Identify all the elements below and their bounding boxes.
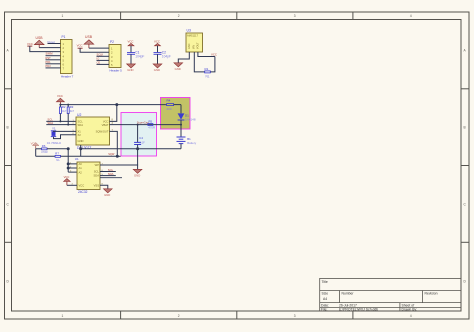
wire P1 pin5 RST bbox=[46, 56, 61, 60]
wire P2 pin4 IO bbox=[97, 56, 110, 60]
svg-text:Drawn By:: Drawn By: bbox=[402, 308, 418, 312]
net label SDA + wire bbox=[46, 121, 76, 126]
battery B1 bbox=[177, 137, 197, 149]
ground (U3) bbox=[174, 63, 183, 71]
diode D1 bbox=[178, 105, 196, 137]
wire U1 VSS to gnd bbox=[100, 185, 108, 189]
power port VCC (U1) bbox=[64, 175, 71, 185]
power port VCC (pull resistors) bbox=[31, 142, 39, 149]
wire U2 SQW/OUT down to gnd rail bbox=[110, 131, 118, 156]
IC U1 24C32 bbox=[75, 157, 100, 194]
svg-text:IO: IO bbox=[97, 56, 100, 60]
resistor R5 bbox=[148, 120, 155, 130]
wire P1 pin4 SWIM bbox=[46, 52, 61, 56]
net label VCC (U3 out) bbox=[211, 52, 217, 56]
svg-text:1N4148: 1N4148 bbox=[185, 117, 196, 121]
svg-text:R6: R6 bbox=[42, 144, 46, 148]
svg-text:Number: Number bbox=[342, 292, 355, 296]
capacitor C4 supercap bbox=[134, 124, 145, 166]
wire P1 pin3 VCC bbox=[30, 46, 61, 52]
svg-text:Header 7: Header 7 bbox=[61, 75, 74, 79]
net label SCL (U1) bbox=[100, 168, 116, 172]
svg-text:Size: Size bbox=[322, 292, 329, 296]
svg-text:USB: USB bbox=[36, 36, 44, 40]
svg-text:B: B bbox=[464, 126, 466, 130]
wire P1 pin7 PD3 bbox=[46, 64, 61, 68]
svg-text:2: 2 bbox=[178, 314, 180, 318]
power port VCC (P2) bbox=[77, 43, 83, 48]
svg-text:4: 4 bbox=[410, 14, 412, 18]
pin number 8 bbox=[112, 119, 114, 122]
resistor R7 bbox=[36, 149, 118, 162]
svg-text:3: 3 bbox=[294, 14, 296, 18]
svg-text:24C32: 24C32 bbox=[78, 190, 88, 194]
svg-text:VIN: VIN bbox=[193, 45, 196, 49]
wire P2 pin5 CE bbox=[97, 60, 110, 64]
svg-text:4: 4 bbox=[410, 314, 412, 318]
svg-text:AMS1117: AMS1117 bbox=[187, 34, 199, 38]
svg-text:VCC: VCC bbox=[77, 43, 83, 47]
resistor R2 bbox=[59, 105, 66, 122]
net label SDA (U1) bbox=[100, 172, 122, 178]
wire X1 to crystal bbox=[54, 130, 77, 133]
svg-text:GND: GND bbox=[188, 43, 191, 49]
svg-text:VCC: VCC bbox=[211, 52, 217, 56]
regulator U3 bbox=[186, 29, 203, 53]
wire P2 pin2 VCC bbox=[80, 48, 109, 52]
svg-text:GND: GND bbox=[154, 68, 160, 72]
svg-text:VCC: VCC bbox=[57, 94, 63, 98]
power port USB (P1) bbox=[34, 36, 44, 48]
svg-text:WP: WP bbox=[95, 163, 100, 167]
svg-text:R5: R5 bbox=[149, 120, 153, 124]
wire U1 WP to gnd bbox=[100, 165, 138, 169]
svg-text:File:: File: bbox=[321, 308, 327, 312]
junction rail-R2 bbox=[59, 104, 61, 106]
wire U2 VCC pin up to rail bbox=[110, 104, 118, 122]
wire P2 pin3 SCLK bbox=[97, 52, 110, 56]
svg-text:SDA: SDA bbox=[78, 123, 84, 127]
svg-text:U2: U2 bbox=[77, 113, 81, 117]
ground (WP) bbox=[133, 169, 142, 177]
svg-text:VOUT: VOUT bbox=[197, 42, 200, 49]
svg-text:SWIM: SWIM bbox=[46, 52, 53, 56]
resistor R1 bbox=[205, 67, 211, 79]
power port VCC (rail) bbox=[56, 94, 64, 105]
svg-text:Header 5: Header 5 bbox=[110, 69, 123, 73]
svg-text:R1: R1 bbox=[205, 67, 209, 71]
svg-text:3: 3 bbox=[294, 314, 296, 318]
wire VCC to U1 bbox=[67, 184, 77, 186]
svg-text:A2: A2 bbox=[79, 170, 83, 174]
svg-text:U3: U3 bbox=[187, 29, 191, 33]
wire R1 to VCC bbox=[211, 57, 215, 72]
svg-text:SDA: SDA bbox=[93, 174, 99, 178]
svg-text:GND: GND bbox=[127, 68, 133, 72]
supercap box (cyan) bbox=[121, 113, 157, 157]
svg-text:4k7: 4k7 bbox=[70, 109, 75, 113]
pin number 7 bbox=[112, 129, 114, 132]
title block bbox=[320, 278, 461, 311]
svg-text:SCLK: SCLK bbox=[97, 52, 104, 56]
svg-text:VBAT: VBAT bbox=[102, 123, 109, 127]
net label SQW on gnd rail bbox=[108, 152, 115, 156]
svg-text:VCC: VCC bbox=[79, 184, 85, 188]
wire P1 pin1 net Reset bbox=[48, 40, 61, 44]
svg-text:R7: R7 bbox=[55, 152, 59, 156]
wire P1 pin6 PD1 bbox=[46, 60, 61, 64]
svg-text:E:\PROTEL\WXJ Sch.ddb: E:\PROTEL\WXJ Sch.ddb bbox=[339, 308, 378, 312]
svg-text:470R: 470R bbox=[148, 125, 155, 129]
wire U3 pin3 stub bbox=[198, 52, 215, 57]
wire gnd rail right segment bbox=[116, 155, 120, 157]
svg-text:2: 2 bbox=[178, 14, 180, 18]
svg-text:A0: A0 bbox=[79, 162, 83, 166]
resistor R4 bbox=[166, 98, 181, 110]
connector P1 bbox=[61, 35, 74, 79]
wire U3 pin1 to GND bbox=[178, 52, 189, 63]
wire VCC rail bbox=[60, 104, 165, 106]
svg-text:VSS: VSS bbox=[94, 184, 100, 188]
svg-text:104pF: 104pF bbox=[135, 55, 144, 59]
svg-text:SCL: SCL bbox=[94, 170, 100, 174]
svg-text:P1: P1 bbox=[62, 35, 66, 39]
net label SuperCap bbox=[137, 120, 149, 124]
pin numbers U2 left bbox=[73, 120, 75, 135]
svg-text:Title: Title bbox=[322, 280, 328, 284]
pin numbers U1 bbox=[70, 162, 104, 185]
wire P2 pin1 bbox=[89, 47, 109, 49]
svg-text:PD1: PD1 bbox=[46, 60, 52, 64]
capacitor C1 bbox=[127, 40, 145, 72]
power port USB (P2) bbox=[84, 35, 94, 48]
svg-text:200: 200 bbox=[167, 107, 172, 111]
svg-text:1: 1 bbox=[62, 14, 64, 18]
wire battery return rail bbox=[80, 148, 181, 150]
svg-text:104pF: 104pF bbox=[162, 55, 171, 59]
ground (VSS) bbox=[103, 189, 112, 197]
svg-text:U1: U1 bbox=[75, 157, 79, 161]
svg-text:NL: NL bbox=[56, 158, 60, 162]
svg-text:1: 1 bbox=[62, 314, 64, 318]
svg-text:A4: A4 bbox=[323, 297, 327, 301]
pin number 3 bbox=[112, 122, 114, 125]
svg-text:GND: GND bbox=[134, 174, 140, 178]
wire U2 VBAT to battery node bbox=[110, 124, 182, 126]
svg-text:X2: X2 bbox=[78, 133, 82, 137]
crystal Y1 bbox=[47, 127, 62, 145]
wire U3 pin2 down bbox=[194, 52, 204, 72]
svg-text:VCC: VCC bbox=[128, 40, 134, 44]
svg-text:PD3: PD3 bbox=[46, 64, 52, 68]
suppressor box (olive) bbox=[161, 98, 191, 130]
svg-text:CE: CE bbox=[97, 60, 101, 64]
svg-text:VCC: VCC bbox=[154, 40, 160, 44]
svg-text:B: B bbox=[7, 126, 9, 130]
svg-text:GND: GND bbox=[104, 193, 110, 197]
svg-text:Revision: Revision bbox=[425, 292, 438, 296]
capacitor C2 bbox=[153, 40, 171, 72]
svg-text:USB: USB bbox=[85, 35, 93, 39]
svg-text:0.1F: 0.1F bbox=[139, 140, 145, 144]
svg-text:Battery: Battery bbox=[187, 141, 196, 145]
IC U2 DS1307 bbox=[76, 113, 110, 150]
svg-text:32.768kHz: 32.768kHz bbox=[47, 141, 62, 145]
svg-text:VCC: VCC bbox=[27, 42, 33, 46]
svg-text:RST: RST bbox=[46, 56, 52, 60]
svg-text:Y1: Y1 bbox=[52, 127, 56, 131]
wire P1 pin2 to USB arrow bbox=[39, 47, 60, 49]
svg-text:SQW: SQW bbox=[108, 152, 115, 156]
svg-text:GND: GND bbox=[175, 67, 181, 71]
wire A0A1A2 tie bbox=[67, 148, 77, 172]
svg-text:470R: 470R bbox=[41, 150, 48, 154]
power port VCC (P1) bbox=[27, 42, 33, 46]
svg-text:VCC: VCC bbox=[64, 175, 70, 179]
svg-text:4k7: 4k7 bbox=[62, 109, 67, 113]
svg-text:R4: R4 bbox=[167, 98, 171, 102]
svg-text:SuperCap: SuperCap bbox=[137, 120, 149, 124]
wire U2 GND pin down bbox=[80, 145, 82, 156]
resistor R6 bbox=[36, 144, 68, 154]
connector P2 bbox=[109, 40, 122, 73]
svg-text:GND: GND bbox=[78, 139, 84, 143]
svg-text:P2: P2 bbox=[110, 40, 114, 44]
svg-text:NL: NL bbox=[206, 75, 210, 79]
resistor R3 bbox=[67, 104, 74, 125]
svg-text:SQW/OUT: SQW/OUT bbox=[96, 130, 109, 134]
net label SCL + wire bbox=[46, 118, 76, 123]
wire X2 to crystal bbox=[54, 135, 77, 139]
svg-text:A1: A1 bbox=[79, 166, 83, 170]
